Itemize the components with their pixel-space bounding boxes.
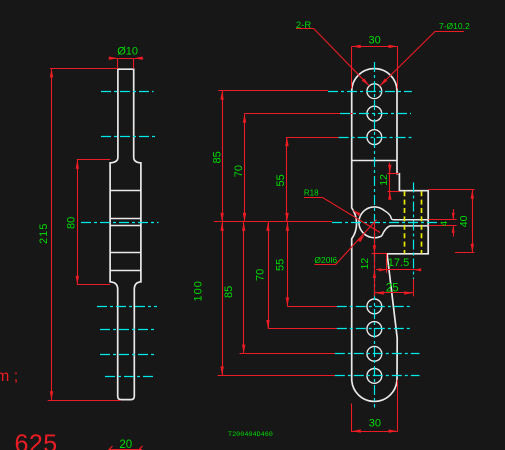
centerline row7 left view [105,376,154,378]
centerline row4 left view [97,306,157,308]
protrusion centerline [413,183,415,280]
row2 extension line [245,113,357,115]
svg-text:40: 40 [458,215,470,227]
dimension 30 bottom [351,431,398,433]
dimension 70 upper [244,114,246,222]
row1 centerline [328,91,412,93]
leader 7-dia10.2 [435,31,464,33]
slit top edge [384,211,428,220]
row3 centerline [339,137,412,139]
svg-text:85: 85 [223,286,235,298]
dimension 85 lower [243,222,245,354]
svg-text:55: 55 [275,259,287,271]
dimension 12 upper [389,163,391,198]
dimension 40 [428,189,474,191]
row6 extension line [240,353,335,355]
dimension 55 upper [286,137,288,222]
row3 extension line [287,137,339,139]
svg-text:70: 70 [255,269,267,281]
right view step edge [352,160,397,162]
row4 extension line [287,306,336,308]
hidden line right [421,191,423,253]
svg-text:215: 215 [38,223,50,244]
leader R18 [304,197,322,199]
row6 centerline [335,353,420,355]
central hole dia20 [359,207,384,238]
centerline row1 left view [101,91,154,93]
dimension 25 [375,292,413,294]
dimension 30 top [352,46,398,48]
svg-text:Ø20l6: Ø20l6 [314,255,337,265]
dimension 12 lower [374,222,376,296]
row1 extension line [218,90,328,92]
dimension 100 lower [222,222,224,376]
dimension 80 [77,159,111,161]
centerline row3 left view [101,136,156,138]
vertical centerline right view [374,62,376,408]
svg-text:55: 55 [275,174,287,186]
right view part outline [352,69,429,402]
svg-text:100: 100 [193,280,205,301]
svg-text:30: 30 [369,418,381,430]
leader dia20l6 [314,264,335,266]
centerline central row left view [81,222,159,224]
svg-text:85: 85 [211,151,223,163]
hole 1 dia10.2 [367,84,382,99]
slit bottom edge [382,226,428,236]
dimension 4 [429,219,457,221]
centerline row6 left view [100,354,156,356]
hole 5 dia10.2 [367,322,382,337]
row4 centerline [337,306,412,308]
left view step line 2 [110,218,141,220]
svg-text:R18: R18 [304,189,319,198]
svg-text:T200404D460: T200404D460 [228,431,273,439]
centerline row5 left view [100,329,156,331]
svg-text:Ø10: Ø10 [117,46,138,58]
left view part outline [110,69,141,399]
hole 6 dia10.2 [367,346,382,361]
central row centerline [332,222,439,224]
svg-text:30: 30 [369,35,381,47]
hole 4 dia10.2 [367,299,382,314]
hole 2 dia10.2 [367,106,382,121]
central row extension line [214,221,332,223]
left view step line 1 [110,190,141,192]
hole 3 dia10.2 [367,130,382,145]
svg-text:m ;: m ; [0,368,18,385]
svg-text:25: 25 [386,283,399,295]
row2 centerline [340,113,411,115]
left view step line 4 [110,252,141,254]
svg-text:20: 20 [119,439,132,450]
dimension 215 [50,68,118,70]
dimension 20 bottom [109,449,142,450]
svg-text:7-Ø10.2: 7-Ø10.2 [439,21,470,31]
row5 extension line [268,328,337,330]
svg-text:80: 80 [66,217,78,229]
svg-text:70: 70 [233,165,245,177]
dimension 85 upper [222,91,224,222]
left view step line 3 [110,225,141,227]
svg-text:17.5: 17.5 [388,257,409,269]
svg-text:625: 625 [15,430,58,450]
row5 centerline [337,328,412,330]
row7 extension line [218,375,335,377]
svg-text:4: 4 [439,221,450,226]
hole 7 dia10.2 [367,369,382,384]
dimension 17.5 [376,269,420,271]
svg-text:12: 12 [378,174,390,186]
leader 2-R [296,28,314,30]
dimension 70 lower [268,222,270,329]
row7 centerline [335,375,420,377]
dimension 55 lower [287,222,289,307]
svg-text:2-R: 2-R [296,20,311,31]
left view step line 5 [110,270,141,272]
dimension line dia10 [109,58,144,60]
hidden line left [404,191,406,253]
svg-text:12: 12 [359,258,371,270]
